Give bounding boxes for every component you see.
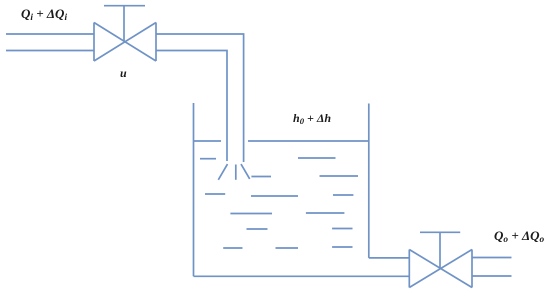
outflow pipe bottom wire xyxy=(472,275,512,277)
pipe bottom wire from valve to downcomer xyxy=(156,51,227,162)
label Qi + dQi (inflow) xyxy=(21,6,67,22)
outflow pipe top wire xyxy=(472,257,512,259)
label h0 + dh (level) xyxy=(293,111,331,126)
label u (valve input) xyxy=(120,66,127,81)
water dash 13 xyxy=(276,247,299,249)
water dash 8 xyxy=(230,213,272,215)
pipe top wire from valve to downcomer xyxy=(156,34,244,162)
water surface line right segment xyxy=(248,140,369,142)
water dash 9 xyxy=(306,212,345,214)
tank right wall xyxy=(368,104,370,258)
tank bottom wall extending to outlet valve xyxy=(194,275,410,277)
water dash 7 xyxy=(333,194,353,196)
outlet valve V2 actuator bar xyxy=(420,231,460,233)
inlet valve V1 stem xyxy=(123,6,125,42)
splash left stroke xyxy=(218,164,227,180)
splash middle stroke xyxy=(235,165,237,180)
inlet pipe top wire xyxy=(6,33,94,35)
water dash 1 xyxy=(200,158,216,160)
tank left wall xyxy=(193,103,195,276)
water dash 10 xyxy=(247,228,268,230)
inlet valve V1 actuator bar xyxy=(104,5,145,7)
water dash 5 xyxy=(205,193,225,195)
label Qo + dQo (outflow) xyxy=(494,228,544,244)
inlet valve V1 body (bowtie) xyxy=(94,23,156,62)
water dash 12 xyxy=(223,247,242,249)
water dash 4 xyxy=(320,175,359,177)
inlet pipe bottom wire xyxy=(6,50,94,52)
outlet valve V2 body (bowtie) xyxy=(409,250,472,288)
outlet pipe top wire xyxy=(369,257,410,259)
splash right stroke xyxy=(241,164,250,179)
outlet valve V2 stem xyxy=(439,232,441,268)
water dash 2 xyxy=(251,176,271,178)
water dash 6 xyxy=(251,195,298,197)
water dash 3 xyxy=(298,157,336,159)
water dash 11 xyxy=(332,228,352,230)
water dash 14 xyxy=(332,246,352,248)
water surface line left segment xyxy=(194,140,222,142)
